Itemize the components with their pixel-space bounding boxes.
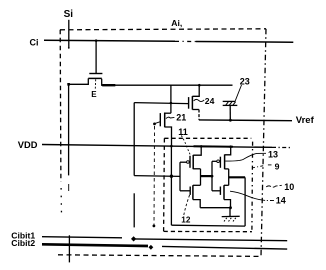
transistor N1 gate lead bbox=[180, 190, 190, 192]
wire Cibit2 line thick part bbox=[42, 244, 148, 246]
transistor P1 bottom lead bbox=[193, 168, 200, 170]
transistor E left lead bbox=[69, 78, 89, 84]
transistor Q21 drain lead bbox=[165, 112, 171, 114]
transistor N2 bottom lead bbox=[224, 200, 231, 210]
wire vertical from gate line down to latch input bbox=[133, 103, 135, 176]
transistor N1 channel bar bbox=[192, 185, 194, 199]
transistor P2 channel bar bbox=[224, 154, 226, 169]
leader 13 bbox=[225, 153, 266, 161]
transistor P2 gate bar bbox=[219, 157, 221, 168]
transistor N1 gate bar bbox=[189, 187, 191, 195]
leader 24 squiggle bbox=[194, 99, 205, 101]
svg-text:12: 12 bbox=[181, 215, 191, 224]
svg-text:13: 13 bbox=[268, 150, 278, 160]
ground 23 lower bar bbox=[223, 104, 238, 106]
transistor Q21 channel bar bbox=[164, 113, 166, 128]
latch ground stem bbox=[229, 208, 231, 216]
wire Cibit1 line bbox=[42, 237, 122, 238]
transistor Q24 source lead bbox=[192, 109, 199, 111]
leader 11 dotted bbox=[181, 136, 190, 157]
leader 14 bbox=[265, 199, 274, 201]
svg-text:Si: Si bbox=[64, 9, 74, 20]
svg-text:11: 11 bbox=[178, 127, 188, 137]
svg-text:14: 14 bbox=[276, 196, 286, 206]
transistor N1 top lead bbox=[193, 184, 201, 186]
transistor E right lead / wire to Q24 drain bbox=[102, 79, 233, 85]
transistor E gate bar bbox=[89, 73, 102, 75]
svg-text:VDD: VDD bbox=[18, 140, 38, 150]
svg-text:Ci: Ci bbox=[30, 37, 39, 47]
svg-text:24: 24 bbox=[205, 96, 215, 106]
transistor N2 channel bar bbox=[223, 185, 225, 199]
wire Si select line vertical bbox=[68, 20, 70, 48]
ground 23 hatching bbox=[226, 102, 229, 106]
leader 12 dash-dot bbox=[184, 194, 190, 215]
wire from E net down to Q21 drain bbox=[170, 85, 172, 113]
outer dashed box right edge bbox=[261, 29, 266, 256]
node junction Ci to gate of E bbox=[95, 39, 98, 42]
wire E branch vertical bbox=[68, 84, 70, 175]
transistor N2 gate bar bbox=[219, 187, 221, 195]
latch solid box right edge bbox=[244, 177, 246, 226]
inner dashed box bottom edge bbox=[164, 230, 252, 232]
transistor P1 top lead bbox=[193, 146, 201, 155]
inner dashed box top edge bbox=[164, 137, 251, 139]
transistor N2 top lead bbox=[224, 184, 229, 186]
inner dashed box right edge bbox=[251, 142, 254, 232]
node junction Q24 drain bbox=[198, 84, 201, 87]
wire VDD rail bbox=[42, 145, 272, 148]
transistor Q21 source lead bbox=[165, 127, 172, 146]
transistor P1 bubble bbox=[187, 161, 190, 164]
wire vertical crossing bit lines bbox=[68, 235, 70, 262]
svg-text:Cibit2: Cibit2 bbox=[11, 238, 35, 248]
transistor Q24 drain lead bbox=[192, 85, 199, 96]
wire latch output to bit line bbox=[133, 193, 135, 227]
transistor P2 gate lead bbox=[212, 160, 217, 162]
leader 10 bbox=[266, 185, 282, 187]
transistor N1 bottom lead bbox=[193, 200, 200, 208]
transistor P1 channel bar bbox=[192, 155, 194, 169]
transistor P1 gate bar bbox=[189, 156, 191, 168]
transistor P2 bubble bbox=[217, 160, 220, 163]
node junction on Cibit1 bbox=[131, 236, 136, 241]
wire Ci word line bbox=[44, 40, 175, 41]
wire node A thick bbox=[201, 175, 213, 177]
wire node B thick bbox=[229, 176, 245, 178]
latch solid box left edge bbox=[170, 146, 172, 225]
wire P1-N1 connector bbox=[200, 169, 202, 186]
transistor Q24 channel bar bbox=[191, 96, 193, 110]
transistor Q24 gate bar bbox=[188, 97, 190, 109]
svg-text:Ai,: Ai, bbox=[171, 18, 182, 28]
inner dashed box left edge bbox=[163, 138, 166, 231]
node junction Q21 source on VDD bbox=[170, 145, 173, 148]
svg-text:21: 21 bbox=[176, 112, 186, 122]
transistor Q21 gate bar bbox=[159, 113, 161, 126]
transistor P2 top lead bbox=[225, 147, 231, 155]
wire latch input bbox=[134, 175, 180, 178]
outer dashed box top edge bbox=[60, 29, 266, 30]
svg-text:10: 10 bbox=[284, 182, 294, 192]
wire left gate bus bbox=[179, 162, 181, 191]
wire dotted net Q21 gate to Cibit2 bbox=[153, 126, 156, 226]
ground 23 stem bbox=[229, 105, 231, 120]
leader 21 squiggle bbox=[166, 117, 174, 118]
transistor N2 gate lead bbox=[212, 190, 220, 192]
transistor P1 gate lead bbox=[180, 161, 187, 163]
svg-text:Vref: Vref bbox=[296, 115, 315, 126]
outer dashed box bottom edge bbox=[58, 255, 261, 257]
wire latch source rail bbox=[200, 207, 230, 209]
transistor E gate tap wire bbox=[95, 41, 97, 73]
transistor P2 bottom lead bbox=[225, 168, 229, 170]
node junction gate wire crossing bbox=[170, 102, 173, 105]
ground 23 upper bar bbox=[223, 100, 236, 102]
latch ground hatching bbox=[224, 218, 227, 222]
transistor Q21 gate stub dot bbox=[156, 122, 161, 124]
wire Cibit2 line thin part bbox=[162, 246, 287, 249]
transistor E channel bar bbox=[88, 77, 102, 79]
leader E to channel bbox=[94, 79, 96, 88]
leader 9 bbox=[268, 164, 272, 166]
wire P2-N2 connector bbox=[228, 169, 230, 185]
wire gate line from latch input column to Q24 bbox=[134, 103, 188, 104]
wire Vref line bbox=[199, 119, 292, 122]
svg-text:E: E bbox=[91, 90, 97, 99]
wire right gate bus bbox=[211, 161, 213, 191]
latch solid box bottom edge bbox=[171, 224, 245, 227]
outer dashed box left edge bbox=[59, 30, 62, 182]
latch ground bar bbox=[222, 215, 240, 217]
svg-text:9: 9 bbox=[275, 161, 280, 171]
leader 23 to ground bbox=[235, 85, 241, 101]
node junction on Cibit2 bbox=[149, 245, 154, 250]
node junction ground 23 stem on Vref bbox=[229, 119, 232, 122]
